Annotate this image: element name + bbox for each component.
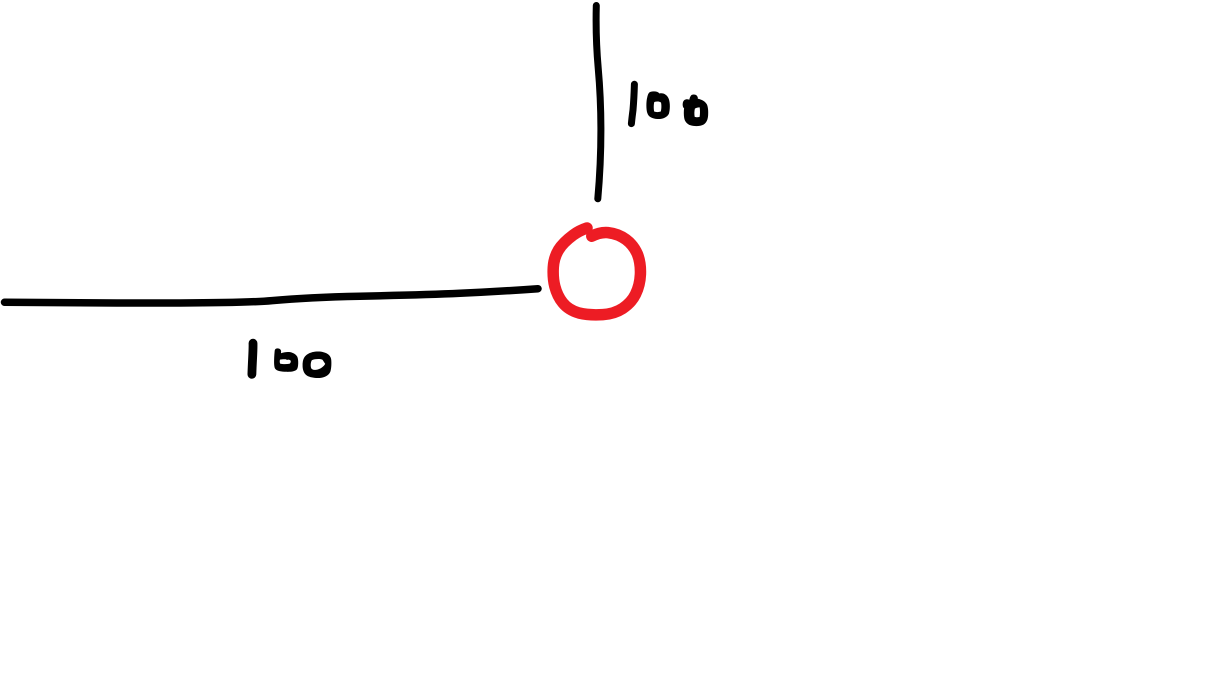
label: value 100 on horizontal wire, second digit 0 xyxy=(303,352,332,378)
wire: horizontal segment from left edge to junction xyxy=(5,289,539,303)
label: value 100 on horizontal wire, digit 1 xyxy=(252,343,253,374)
wire: vertical segment from top edge down to junction xyxy=(596,6,601,199)
label: value 100 on vertical wire, second digit 0 xyxy=(683,94,709,126)
label: value 100 on horizontal wire, first digit 0 xyxy=(274,348,298,371)
label: value 100 on vertical wire, first digit 0 xyxy=(646,91,669,119)
node: junction highlighted with hand-drawn red circle xyxy=(553,228,640,315)
label: value 100 on vertical wire, digit 1 xyxy=(631,84,634,123)
